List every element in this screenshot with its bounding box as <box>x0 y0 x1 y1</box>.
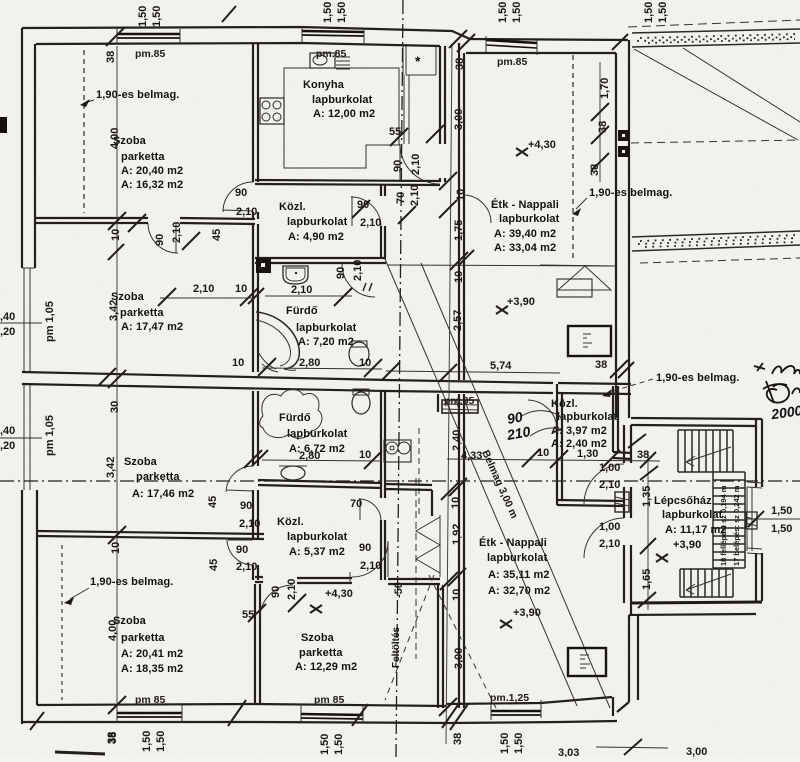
svg-text:Szoba: Szoba <box>124 456 158 468</box>
svg-text:2,10: 2,10 <box>236 561 257 573</box>
ticks Közl 4,90 door <box>352 200 416 224</box>
svg-text:1,50: 1,50 <box>333 734 345 755</box>
vent square 1 white dot <box>622 134 625 137</box>
window W3 top right unit (pm.85) <box>486 40 537 43</box>
svg-text:Étk - Nappali: Étk - Nappali <box>491 198 559 211</box>
svg-text:A: 12,00 m2: A: 12,00 m2 <box>313 108 375 120</box>
svg-text:10: 10 <box>235 283 247 295</box>
rotated dims: x600 chain <box>589 78 611 176</box>
svg-text:2,10: 2,10 <box>239 518 260 530</box>
stairwell right nub 2 <box>747 548 762 554</box>
door arc: Fürdő 6,72 door (wall I top) <box>226 466 253 492</box>
svg-text:1,75: 1,75 <box>453 220 465 241</box>
stairs: upper flight walk arrow <box>686 447 731 466</box>
vestibule wall: Közl 3,97 left wall <box>557 384 562 505</box>
svg-text:Fürdő: Fürdő <box>279 412 311 424</box>
stairs: right run treads <box>713 472 745 568</box>
svg-text:38: 38 <box>595 359 607 371</box>
svg-text:Közl.: Közl. <box>277 516 304 528</box>
svg-text:+4,30: +4,30 <box>325 588 353 600</box>
svg-text:90: 90 <box>270 586 282 598</box>
dimension ticks bottom wall <box>30 700 468 730</box>
level mark +3,90 upper <box>496 296 535 314</box>
svg-text:+3,90: +3,90 <box>513 607 541 619</box>
stairwell top wall band <box>631 418 762 426</box>
attic roof diagonal 2 <box>683 48 800 122</box>
rotated dims: stairwell chain <box>641 486 653 590</box>
door arc: Szoba 20,40 to Közl <box>223 182 253 212</box>
svg-text:10: 10 <box>359 357 371 369</box>
svg-text:2,40: 2,40 <box>451 430 463 451</box>
rotated dims: top 1,50 pairs <box>137 2 669 27</box>
svg-text:1,50: 1,50 <box>513 733 525 754</box>
svg-text:2,10: 2,10 <box>599 479 620 491</box>
level flag Lépcsőház <box>656 554 668 562</box>
svg-text:10: 10 <box>537 447 549 459</box>
room label Szoba 17,46 <box>124 456 194 500</box>
svg-text:90: 90 <box>392 160 404 172</box>
wall J: Szoba 17,46 / Szoba 20,41 divider <box>37 531 264 539</box>
Fürdő 6,72 washbasin <box>279 466 307 480</box>
svg-text:2,10: 2,10 <box>171 222 183 243</box>
svg-text:45: 45 <box>211 229 223 241</box>
window W4 jamb lines <box>117 705 182 722</box>
wall: Közl to stairwell connector <box>613 452 631 459</box>
window W6 jamb lines <box>491 700 541 720</box>
kitchen sink <box>310 53 350 69</box>
wall: left outer wall lower band inner line <box>36 490 38 705</box>
wall: lower unit bottom outer line <box>560 721 617 722</box>
svg-text:1,90-es belmag.: 1,90-es belmag. <box>656 372 739 384</box>
svg-text:1,50: 1,50 <box>499 733 511 754</box>
svg-text:38: 38 <box>452 733 464 745</box>
stairwell left wall upper <box>624 425 631 463</box>
svg-text:2,10: 2,10 <box>409 185 421 206</box>
svg-text:+3,90: +3,90 <box>673 539 701 551</box>
ticks Fürdő 6,72 <box>244 450 382 469</box>
dashed vertical flue line <box>415 478 417 659</box>
vestibule wall: Közl 3,97 bottom <box>557 500 624 506</box>
svg-text:A: 17,46 m2: A: 17,46 m2 <box>132 488 194 500</box>
svg-text:pm.85: pm.85 <box>444 395 475 407</box>
wall L below door <box>381 520 385 580</box>
svg-text:1,50: 1,50 <box>497 2 509 23</box>
svg-text:4,00: 4,00 <box>107 620 119 641</box>
wall: left outer wall lower band outer line <box>21 490 23 724</box>
svg-text:2,10: 2,10 <box>352 260 364 281</box>
wall: left outer wall upper band outer line <box>21 28 23 268</box>
door arc: kitchen door <box>400 144 440 184</box>
dimension line Fürdő 7,20 bottom <box>262 368 382 369</box>
svg-text:1,50: 1,50 <box>151 6 163 27</box>
svg-text:Fürdő: Fürdő <box>286 305 318 317</box>
svg-text:3,00: 3,00 <box>686 746 707 757</box>
scan artifact left edge box <box>0 117 7 133</box>
svg-text:90: 90 <box>359 542 371 554</box>
level mark +4,30 upper <box>516 139 556 156</box>
stairwell right wall upper <box>756 419 762 487</box>
svg-text:2,10: 2,10 <box>360 217 381 229</box>
attic stipple band 2 top line <box>632 231 800 237</box>
svg-text:A: 3,97 m2: A: 3,97 m2 <box>551 425 607 437</box>
floor band right part lower line <box>386 391 631 394</box>
flue block walls <box>385 484 432 516</box>
ticks 4,33 chain <box>522 449 656 468</box>
svg-text:A: 12,29 m2: A: 12,29 m2 <box>295 661 357 673</box>
svg-text:1,50: 1,50 <box>155 731 167 752</box>
ticks stairwell left chain <box>628 434 658 608</box>
attic stipple band 2 bottom line <box>632 245 800 251</box>
window left wall zone 1 (pm 1,05) <box>24 268 30 372</box>
svg-text:38: 38 <box>454 58 466 70</box>
wall T: Közl 3,97 right wall <box>613 386 618 452</box>
Fürdő 7,20 bathtub <box>256 312 299 372</box>
dimension line lower 4,33 chain <box>447 459 660 461</box>
belmag note bottom-left with arrow <box>64 576 173 605</box>
svg-text:A: 33,04 m2: A: 33,04 m2 <box>494 242 556 254</box>
room label Szoba 20,40 <box>113 135 183 191</box>
svg-text:3,42: 3,42 <box>108 300 120 321</box>
svg-text:38: 38 <box>107 732 119 744</box>
svg-text:A: 4,90 m2: A: 4,90 m2 <box>288 231 344 243</box>
slope diagonal line 2 <box>421 263 610 708</box>
ticks Szoba12 door <box>248 594 306 622</box>
svg-text:lapburkolat: lapburkolat <box>287 216 348 228</box>
ticks 2,10 chain <box>158 288 264 306</box>
svg-text:10: 10 <box>451 589 463 601</box>
belmag note right stairwell with dashed pointer <box>602 372 739 397</box>
wall P: upper unit right wall outer <box>628 40 630 418</box>
attic stipple band 1 bottom line <box>632 43 800 47</box>
svg-text:3,42: 3,42 <box>105 457 117 478</box>
window W5 jamb lines <box>301 704 363 723</box>
svg-text:3,03: 3,03 <box>558 747 579 757</box>
svg-text:10: 10 <box>110 542 122 554</box>
svg-text:parketta: parketta <box>121 151 165 163</box>
svg-text:1,50: 1,50 <box>771 523 792 535</box>
stairs: lower flight walk arrow <box>686 574 731 594</box>
room label Szoba 17,47 <box>111 291 183 333</box>
svg-text:38: 38 <box>589 164 601 176</box>
room label Fürdő 6,72 <box>279 412 348 455</box>
attic stipple band 1 top line <box>632 29 800 33</box>
svg-text:30: 30 <box>109 401 121 413</box>
wall E below door gap <box>381 226 385 257</box>
svg-text:1,50: 1,50 <box>319 734 331 755</box>
svg-text:17 belépés: sz 0,242 m: 17 belépés: sz 0,242 m <box>732 485 741 566</box>
window W1 jamb lines <box>117 29 180 44</box>
tick left edge dim <box>0 322 42 324</box>
svg-text:10: 10 <box>450 497 462 509</box>
tick left edge dim 2 <box>0 437 42 439</box>
svg-text:90: 90 <box>335 267 347 279</box>
attic dashed line below band 2 <box>640 258 800 263</box>
stairwell right nub 1 <box>747 482 762 488</box>
room label Közl 5,37 <box>277 516 348 558</box>
svg-text:lapburkolat: lapburkolat <box>287 531 348 543</box>
stairwell window hatched box <box>615 492 629 512</box>
svg-text:A: 5,37 m2: A: 5,37 m2 <box>289 546 345 558</box>
window W2 top (pm.85) <box>302 31 364 32</box>
bottom dimension line with tick <box>596 747 668 748</box>
svg-text:A: 39,40 m2: A: 39,40 m2 <box>494 228 556 240</box>
svg-text:A: 18,35 m2: A: 18,35 m2 <box>121 663 183 675</box>
svg-text:90: 90 <box>236 544 248 556</box>
svg-text:70: 70 <box>350 498 362 510</box>
svg-text:38: 38 <box>597 121 609 133</box>
room label Lépcsőház <box>654 495 727 551</box>
wall C: kitchen bottom <box>255 180 440 185</box>
wall D: kitchen right <box>440 46 445 144</box>
wall F: Fürdő 7,20 top <box>255 258 386 263</box>
door arc: Szoba 17,46 door (wall I) <box>227 540 253 565</box>
room label Szoba 12,29 <box>295 632 357 673</box>
party wall lower part <box>459 394 464 708</box>
svg-text:2,10: 2,10 <box>193 283 214 295</box>
dimension ticks top wall <box>106 6 628 52</box>
room label Közl 3,97 <box>551 398 618 450</box>
svg-text:1,90-es belmag.: 1,90-es belmag. <box>589 187 672 199</box>
svg-text:45: 45 <box>207 496 219 508</box>
attic dashed line mid <box>631 140 800 143</box>
wall B: Szoba/Konyha divider <box>253 44 258 182</box>
room label Étk-Nappali lower <box>479 536 550 597</box>
svg-text:lapburkolat: lapburkolat <box>499 213 560 225</box>
belmag note top-left with arrow <box>80 89 179 107</box>
svg-text:1,50: 1,50 <box>657 2 669 23</box>
svg-text:pm.85: pm.85 <box>316 48 347 60</box>
window W5 bottom (pm 85) <box>301 714 363 715</box>
svg-text:pm 85: pm 85 <box>314 694 345 706</box>
black box at Fürdő 7,20 wall end <box>256 258 271 273</box>
wall E: Közl right wall upper <box>381 185 385 196</box>
svg-text:A: 32,70 m2: A: 32,70 m2 <box>488 585 550 597</box>
room label Étk-Nappali upper <box>491 198 560 254</box>
stair annotation rotated texts <box>719 485 741 566</box>
room label Szoba 20,41 <box>113 615 183 675</box>
wall: left unit bottom band inner line <box>37 704 446 706</box>
shaft walls below closet <box>404 75 409 144</box>
window W2 jamb lines <box>302 27 364 44</box>
wall: Szoba 12,29 left wall <box>255 584 260 705</box>
floor band left part lower line <box>22 384 386 391</box>
svg-text:38: 38 <box>105 51 117 63</box>
dimension line 2,10 Szoba 17,47 <box>160 297 253 299</box>
window left wall zone 2 (pm 1,0) <box>24 384 30 490</box>
door arc: Fürdő 7,20 door <box>342 264 375 297</box>
fireplace upper unit <box>540 265 616 297</box>
wall: lower unit bottom inner line <box>446 697 613 716</box>
svg-text:2,10: 2,10 <box>410 154 422 175</box>
door arc: Közl 5,37 door 70 <box>359 498 381 520</box>
dimension ticks right chain x447 <box>439 172 474 716</box>
svg-text:pm 85: pm 85 <box>135 694 166 706</box>
svg-text:10: 10 <box>453 271 465 283</box>
vent square 1 on wall P <box>618 130 629 141</box>
wall: left unit top inner line <box>36 43 440 46</box>
stairwell bottom band second line <box>629 614 756 615</box>
svg-text:lapburkolat: lapburkolat <box>296 322 357 334</box>
svg-text:parketta: parketta <box>121 632 165 644</box>
party wall: right unit left wall <box>459 43 464 380</box>
Fürdő 7,20 WC <box>349 341 369 366</box>
attic roof diagonal 1 <box>634 49 798 140</box>
room label Fürdő 7,20 <box>286 305 357 348</box>
svg-text:1,50: 1,50 <box>643 2 655 23</box>
svg-text:Konyha: Konyha <box>303 79 345 91</box>
stairwell right recessed window wall <box>747 487 752 551</box>
room label Konyha <box>303 79 375 120</box>
wall: left unit bottom band outer line <box>22 722 560 723</box>
construction line y265 <box>388 265 616 266</box>
svg-text:1,70: 1,70 <box>599 78 611 99</box>
svg-text:1,50: 1,50 <box>137 6 149 27</box>
door arc: Szoba 12,29 door 1 <box>260 585 293 618</box>
dimension line 5,74 <box>386 371 560 373</box>
dimension line stairwell right 1,50 <box>745 518 800 520</box>
window W4 bottom (pm 85) <box>117 712 182 714</box>
svg-text:10: 10 <box>359 449 371 461</box>
Fürdő 6,72 corner bathtub <box>260 389 322 438</box>
svg-text:1,92: 1,92 <box>451 524 463 545</box>
svg-text:2,10: 2,10 <box>291 284 312 296</box>
room label Közl 4,90 <box>279 201 348 243</box>
door arc: stairwell door 1 <box>584 464 624 504</box>
svg-text:pm.1,25: pm.1,25 <box>490 692 529 704</box>
wall M door jamb nub <box>349 572 351 584</box>
svg-text:,40: ,40 <box>0 425 15 437</box>
vent square 2 white dot <box>622 150 625 153</box>
svg-text:A: 17,47 m2: A: 17,47 m2 <box>121 321 183 333</box>
vent square 2 on wall P <box>618 146 629 157</box>
closet walls top (star closet) <box>403 46 436 75</box>
svg-text:10: 10 <box>232 357 244 369</box>
wall L: Fürdő/Közl right wall <box>381 391 385 498</box>
section line horizontal dash-dot <box>0 480 800 482</box>
rotated dims: bottom pairs <box>106 731 525 755</box>
svg-text:1,30: 1,30 <box>577 448 598 460</box>
attic stipple band 2 speckles <box>638 235 798 247</box>
washer pair fixture <box>384 440 411 462</box>
wall M: Közl 5,37 bottom <box>255 577 440 584</box>
svg-text:2,10: 2,10 <box>236 206 257 218</box>
dimension chain line stairwell x648 <box>647 452 649 610</box>
ticks kitchen door 55 <box>390 125 444 146</box>
Fürdő 7,20 washbasin <box>265 266 352 306</box>
svg-text:1,00: 1,00 <box>599 462 620 474</box>
svg-text:parketta: parketta <box>136 471 180 483</box>
svg-text:18 fellépés: sz 0,194 m: 18 fellépés: sz 0,194 m <box>719 485 728 566</box>
wall N: Szoba 12,29 right wall <box>438 585 443 708</box>
svg-text:pm.85: pm.85 <box>135 48 166 60</box>
stairwell right wall lower <box>756 553 762 601</box>
tick wall A door <box>128 214 200 250</box>
svg-text:lapburkolat: lapburkolat <box>287 428 348 440</box>
belmag note upper-right with arrow <box>572 187 672 216</box>
door arc: top wall A door <box>148 223 178 253</box>
svg-text:55: 55 <box>389 126 401 138</box>
stove box upper unit <box>568 326 611 356</box>
dashed line top-left room (1,90 belmag) <box>83 50 85 213</box>
svg-text:A: 20,41 m2: A: 20,41 m2 <box>121 648 183 660</box>
wall I between doors <box>253 490 258 540</box>
svg-text:*: * <box>415 53 421 69</box>
dashed vertical line shaft <box>418 428 420 516</box>
stairwell left wall lower <box>624 545 631 615</box>
svg-text:10: 10 <box>110 229 122 241</box>
Fürdő 6,72 WC <box>352 389 370 414</box>
svg-text:2,10: 2,10 <box>286 579 298 600</box>
dashed diagonal A <box>385 575 434 700</box>
svg-text:,40: ,40 <box>0 311 15 323</box>
wall K: Fürdő 6,72 bottom <box>258 480 382 488</box>
flue zigzag strip (feltöltés) <box>416 515 440 577</box>
level mark +3,90 lower <box>500 607 541 628</box>
svg-text:lapburkolat: lapburkolat <box>487 552 548 564</box>
wall D below door <box>440 178 445 182</box>
svg-text:3,00: 3,00 <box>453 109 465 130</box>
svg-text:-50: -50 <box>393 582 405 598</box>
svg-text:90: 90 <box>357 199 369 211</box>
svg-text:A: 7,20 m2: A: 7,20 m2 <box>298 336 354 348</box>
svg-text:3,00: 3,00 <box>453 648 465 669</box>
wall P inner <box>615 53 617 418</box>
stairwell right window hatch box <box>746 512 757 529</box>
rotated dims: right chain x456 <box>450 58 467 669</box>
svg-text:Lépcsőház: Lépcsőház <box>654 495 712 507</box>
svg-text:2,80: 2,80 <box>299 357 320 369</box>
svg-text:pm 1,05: pm 1,05 <box>44 415 56 456</box>
svg-text:2,57: 2,57 <box>452 310 464 331</box>
svg-text:5,74: 5,74 <box>490 360 512 372</box>
door arc: upper Étk entry from corridor <box>463 195 491 223</box>
rotated dims: doors vertical labels <box>154 154 422 600</box>
stairs: upper flight treads <box>678 430 733 472</box>
dimension chain line left x117 <box>116 46 118 703</box>
wall G: Szoba 17,47 right <box>253 224 258 372</box>
svg-text:38: 38 <box>637 449 649 461</box>
svg-text:4,33: 4,33 <box>461 450 482 462</box>
wall I: left column wall below band <box>253 391 258 466</box>
wall B lower stub <box>253 212 258 219</box>
lower unit right wall band <box>617 615 638 712</box>
svg-text:1,50: 1,50 <box>322 2 334 23</box>
ticks 5,74 line <box>382 360 634 380</box>
stove box lower unit <box>568 648 606 676</box>
svg-text:1,00: 1,00 <box>599 521 620 533</box>
svg-text:1,35: 1,35 <box>641 486 653 507</box>
wall: left outer wall upper band inner line <box>34 44 36 268</box>
svg-text:10: 10 <box>455 189 467 201</box>
lower Étk window sill box pm.85 <box>442 400 478 413</box>
handwritten 90/210 note <box>505 408 562 443</box>
kitchen stove 4 rings <box>260 98 284 124</box>
section line vertical dash-dot <box>396 0 403 757</box>
svg-text:A: 11,17 m2: A: 11,17 m2 <box>665 524 727 536</box>
svg-text:70: 70 <box>395 192 407 204</box>
svg-text:A: 20,40 m2: A: 20,40 m2 <box>121 165 183 177</box>
svg-text:lapburkolat: lapburkolat <box>312 94 373 106</box>
svg-text:A: 35,11 m2: A: 35,11 m2 <box>488 569 550 581</box>
kitchen counter floor outline <box>284 68 399 168</box>
svg-text:45: 45 <box>208 559 220 571</box>
wall I below second door <box>253 565 258 580</box>
dashed line bottom-left room (1,90 belmag) <box>61 545 63 700</box>
svg-text:2,10: 2,10 <box>360 560 381 572</box>
svg-text:1,65: 1,65 <box>641 569 653 590</box>
svg-text:55: 55 <box>242 609 254 621</box>
dimension ticks x600 chain <box>591 103 609 171</box>
